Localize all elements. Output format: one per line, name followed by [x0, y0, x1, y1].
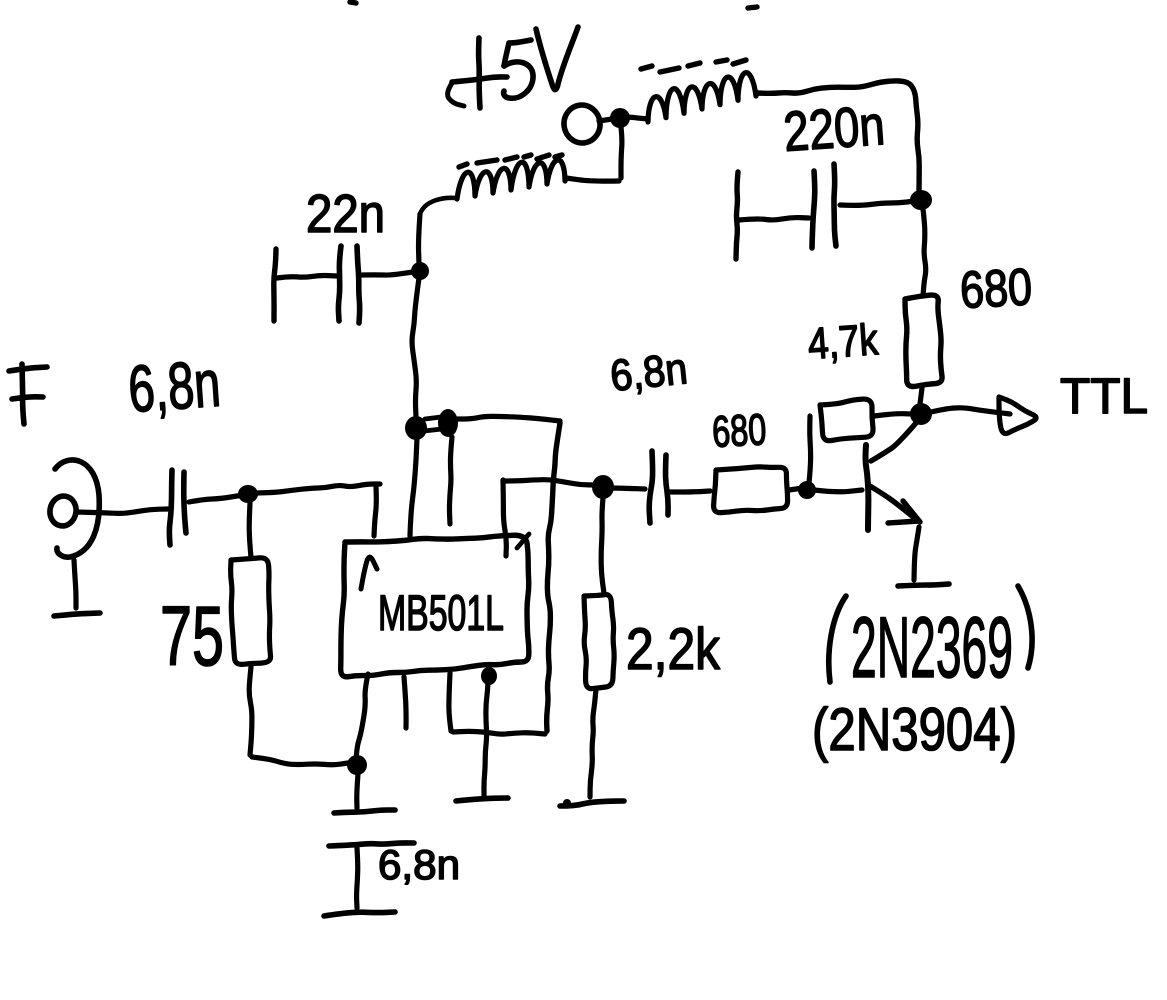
svg-text:4,7k: 4,7k	[806, 315, 880, 369]
svg-text:TTL: TTL	[1060, 368, 1148, 424]
svg-text:680: 680	[711, 405, 767, 457]
svg-text:2,2k: 2,2k	[626, 617, 721, 682]
svg-text:6,8n: 6,8n	[608, 344, 690, 401]
svg-text:(2N3904): (2N3904)	[812, 696, 1017, 763]
svg-text:22n: 22n	[306, 184, 385, 244]
svg-text:MB501L: MB501L	[378, 585, 504, 641]
svg-text:6,8n: 6,8n	[126, 346, 223, 426]
svg-text:220n: 220n	[781, 93, 886, 163]
svg-text:6,8n: 6,8n	[378, 841, 460, 888]
svg-text:2N2369: 2N2369	[851, 600, 1013, 696]
svg-text:75: 75	[160, 589, 224, 683]
svg-text:680: 680	[959, 258, 1034, 320]
